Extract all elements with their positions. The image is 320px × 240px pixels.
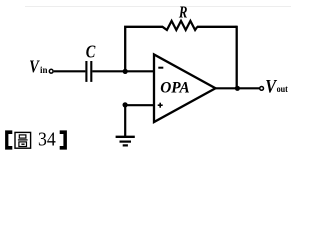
svg-text:OPA: OPA [160, 80, 190, 97]
output node junction [235, 86, 240, 91]
wire: feedback top-right segment [197, 26, 237, 28]
wire: feedback left vertical and top-left segment [125, 27, 163, 70]
capacitor C [86, 42, 96, 82]
wire: capacitor to op-amp inverting input [92, 70, 154, 72]
input terminal (open circle) [49, 69, 53, 73]
wire: feedback right vertical [236, 26, 238, 89]
svg-text:V: V [265, 76, 277, 97]
faint scan line [25, 6, 291, 7]
node A: inverting input junction [123, 69, 128, 74]
ground [116, 137, 135, 146]
Vout label [265, 76, 288, 97]
node: ground branch junction [123, 102, 128, 107]
Vin label [29, 56, 47, 76]
output wire [216, 87, 260, 89]
svg-text:V: V [29, 56, 40, 76]
non-inverting input '+' [158, 104, 163, 106]
resistor R [163, 2, 198, 30]
figure caption: left lenticular bracket [5, 130, 12, 149]
inverting input '-' [158, 67, 163, 69]
svg-text:R: R [178, 2, 187, 21]
svg-text:34: 34 [38, 129, 56, 151]
wire: input terminal to capacitor [54, 70, 86, 72]
svg-text:in: in [40, 65, 48, 75]
svg-text:out: out [277, 84, 288, 94]
output terminal (open circle) [260, 87, 264, 91]
svg-text:C: C [86, 42, 96, 62]
figure caption: character 圖 [15, 132, 31, 148]
figure caption: right lenticular bracket [60, 130, 67, 149]
wire: non-inverting input to ground branch [125, 104, 154, 106]
wire: down to ground [124, 105, 126, 137]
op-amp U1 (OPA) [154, 55, 216, 123]
